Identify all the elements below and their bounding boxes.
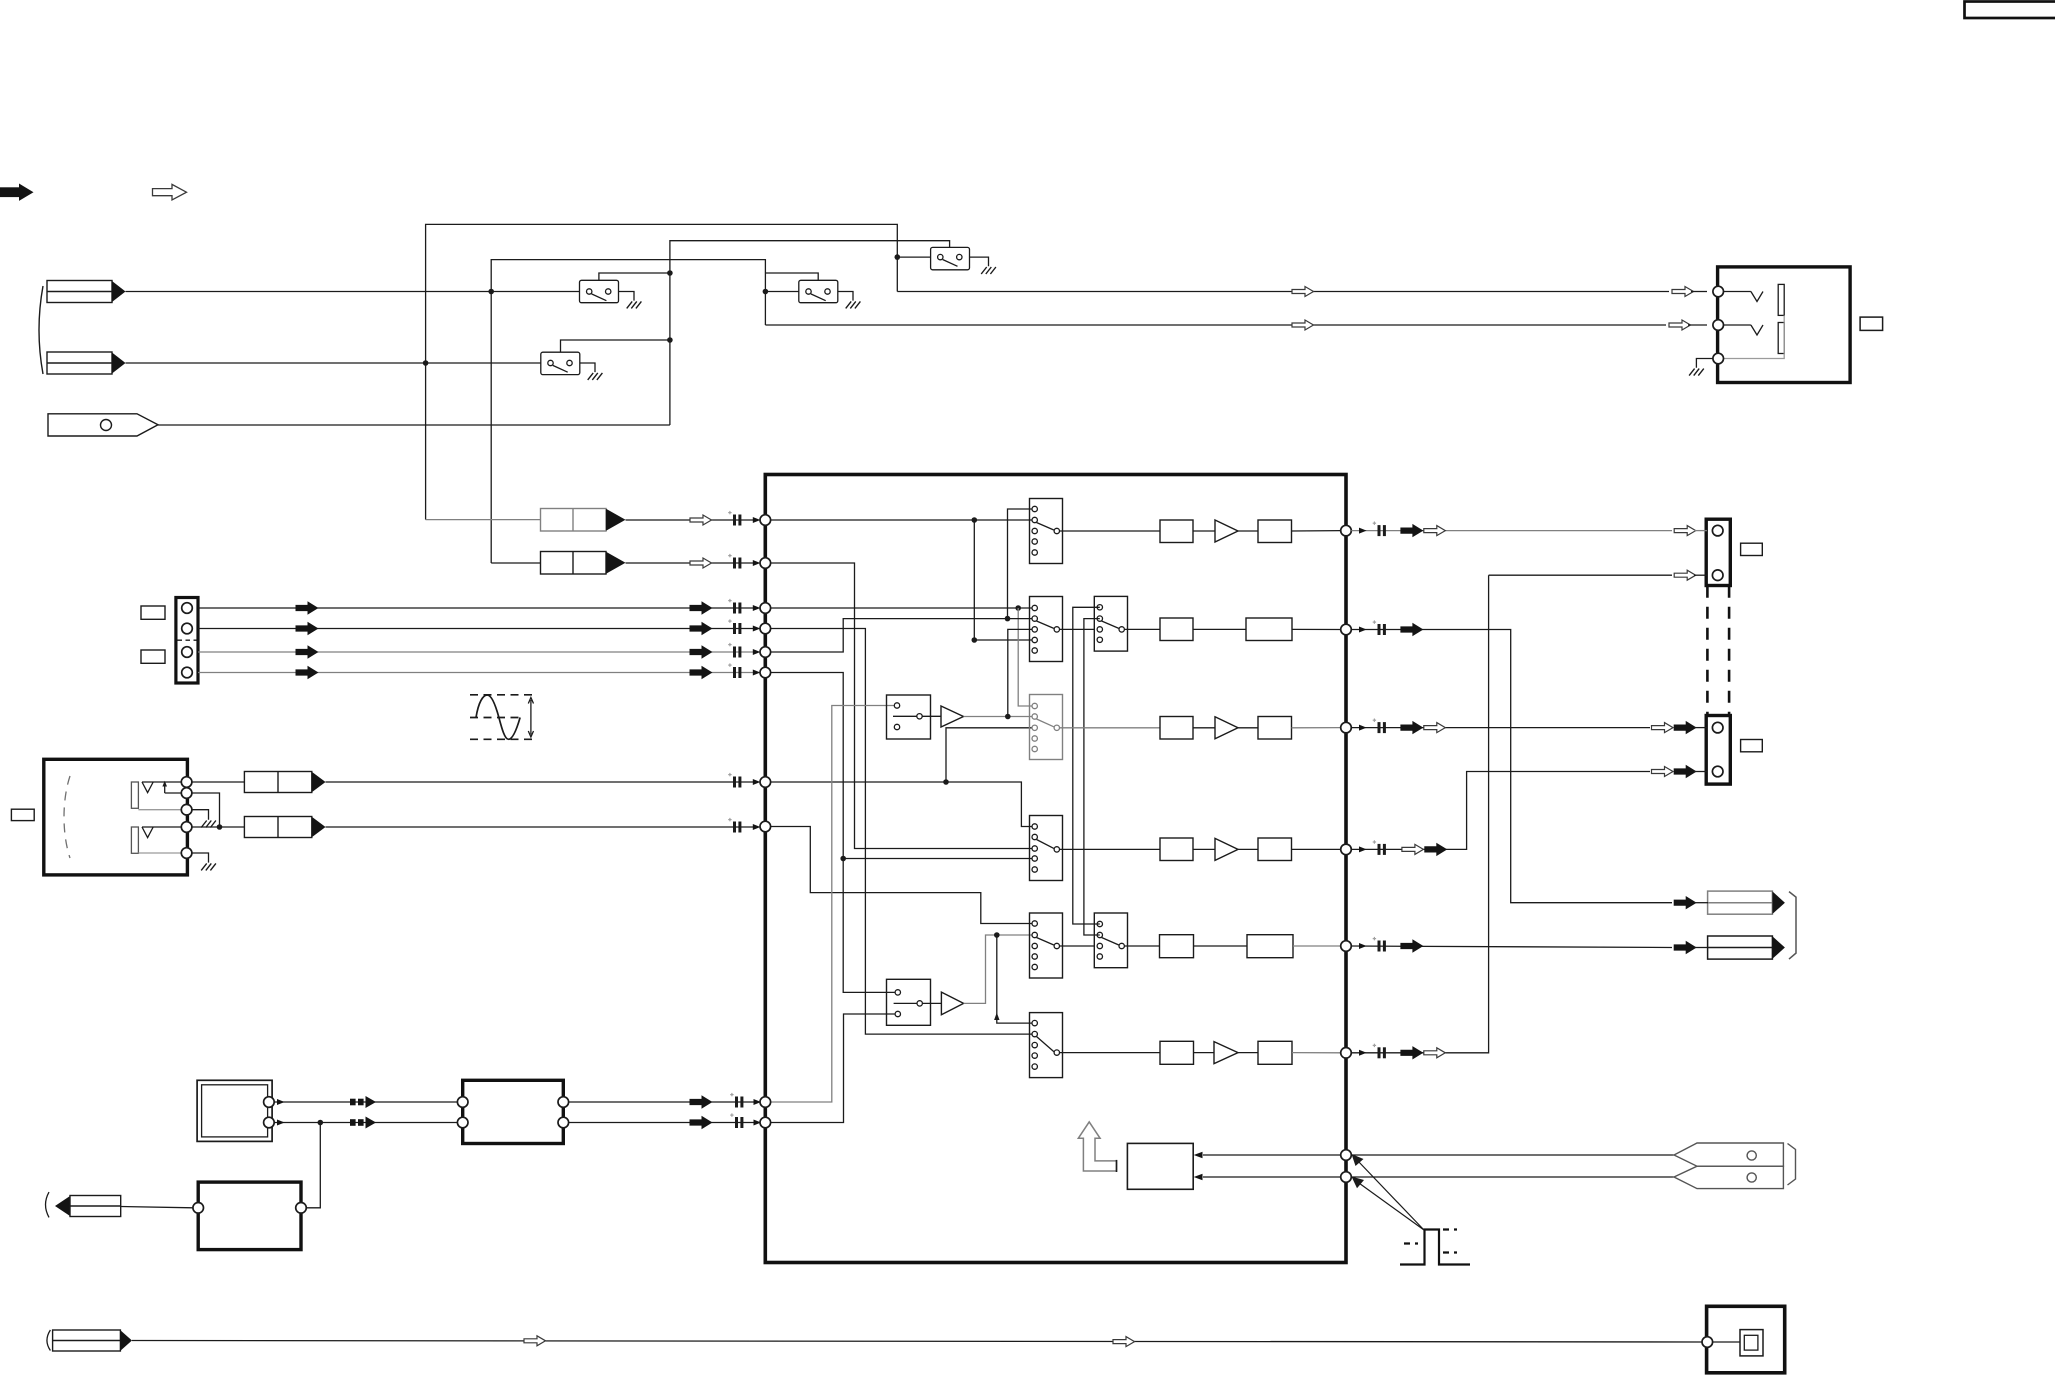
wire row4 [1193, 848, 1215, 850]
terminal U2-1 [264, 1097, 275, 1108]
pulse pointer line 1 [1358, 1161, 1425, 1231]
capacitor row6 [1373, 1044, 1386, 1059]
wire row1 [1193, 530, 1215, 532]
jack wire t2 [165, 792, 182, 794]
jack upper tip contact [142, 782, 181, 793]
wire row6 mux6 out [1060, 1052, 1161, 1054]
node latch1 out [1005, 714, 1011, 720]
latch1 block [887, 695, 931, 739]
mux SW4 [1030, 816, 1063, 881]
terminal JK1-2 [1713, 320, 1724, 331]
wire U2-2 to U3 [274, 1122, 463, 1124]
wire cableC to pin7 [326, 781, 759, 783]
label CN4 [1741, 740, 1763, 752]
terminal CN3-1 [1712, 525, 1723, 536]
wire row6 to pin [1292, 1052, 1341, 1054]
amp row4 [1215, 838, 1238, 860]
jack wire sleeve2 [138, 852, 181, 854]
open arrow row1 [1424, 526, 1446, 536]
wire P7 row [765, 782, 1032, 827]
sine level symbol [470, 695, 537, 740]
wire latch net to mux2.in3 [1008, 629, 1032, 716]
IC right pin 2 [1341, 624, 1352, 635]
black arrow rca1 [1674, 897, 1696, 909]
IC left pin 4 [760, 623, 771, 634]
mux SW1 [1030, 499, 1063, 564]
terminal power [1702, 1337, 1713, 1348]
switch S4 [799, 280, 853, 302]
wire row4 mux4 out [1060, 848, 1161, 850]
IC left pin 10 [760, 1117, 771, 1128]
arrowhead latch2 net [994, 1013, 999, 1021]
cable C (to IC pin7) [244, 772, 311, 793]
block row1 b [1258, 520, 1292, 543]
black arrow row 672 [690, 667, 712, 679]
wire control bus vertical-670 [670, 241, 950, 425]
mux SW5 [1030, 913, 1063, 978]
jack link t2 to row827 [192, 793, 220, 827]
wire row3 out [1351, 727, 1650, 729]
node control S3 [667, 337, 673, 343]
cable D (to IC pin8) [244, 817, 311, 838]
arrowhead row 782 [753, 779, 761, 785]
wire P9 to latch1.in1 [765, 706, 894, 1103]
IC left pin 7 [760, 777, 771, 788]
wire to switch S1 [897, 256, 940, 258]
open arrow on jack row1 end [1672, 287, 1694, 297]
wire row5 to pin [1293, 945, 1341, 947]
tuner front end U3 [463, 1080, 564, 1143]
switch S2 [580, 280, 635, 302]
wire JK2-4 to cable D [192, 826, 244, 828]
switch S1 [931, 247, 989, 269]
wire cable2 to switch S3 [126, 362, 551, 364]
capacitor row 652 [728, 643, 741, 658]
capacitor row 827 [728, 818, 741, 833]
terminal CN3-2 [1712, 570, 1723, 581]
wire P6 branch to mux4.in4 [843, 858, 1032, 860]
wire CN2-3 to IC pin5 [198, 651, 758, 653]
terminal U4-2 [296, 1203, 307, 1214]
node control S2 [667, 270, 673, 276]
wire row4 out [1351, 772, 1650, 850]
contact bar 2 [1778, 323, 1784, 354]
jack sleeve dashed arc [64, 776, 70, 858]
label CN2-a [141, 606, 165, 619]
page corner label box [1965, 2, 2055, 19]
terminal CN2-2 [182, 623, 193, 634]
arrowhead row4 [1359, 846, 1367, 852]
mux SW3 (gray) [1030, 695, 1063, 760]
connector CN3 (line out 1) [1706, 519, 1730, 585]
open arrow row1 end [1674, 526, 1696, 536]
IC left pin 8 [760, 821, 771, 832]
node latch2 net [994, 932, 1000, 938]
wire row1 [1238, 530, 1258, 532]
double arrow row1 [350, 1096, 376, 1108]
arrowhead row 628 [753, 626, 761, 632]
open arrow on jack row2 end [1669, 320, 1691, 330]
arrowhead into U5 row2 [1194, 1174, 1203, 1180]
system control arrow symbol [1078, 1122, 1116, 1171]
ground S1 [981, 267, 996, 274]
divider CN2 [178, 639, 197, 641]
terminal JK2-5 [181, 848, 192, 859]
wire latch net to mux1.in1 [1008, 509, 1033, 619]
wire row1 to pin [1292, 530, 1341, 532]
jack ground 2 [192, 853, 209, 863]
cable A (to IC pin 1) [541, 509, 607, 532]
node jack link [217, 824, 223, 830]
arrowhead into U5 row1 [1194, 1152, 1203, 1158]
legend open arrow [153, 184, 187, 200]
wire remote row2 [1203, 1176, 1341, 1178]
label CN3 [1741, 543, 1763, 555]
open arrow row 563 [690, 558, 712, 568]
jack upper contact bar [131, 782, 138, 808]
terminal JK2-2 [181, 788, 192, 799]
wire row2 out [1351, 630, 1672, 903]
terminal JK2-1 [181, 777, 192, 788]
arrowhead row 1102 [754, 1099, 762, 1105]
contact bar 1 [1778, 284, 1784, 315]
RCA cable A [1708, 891, 1773, 914]
ground S4 [846, 301, 861, 308]
arrowhead row 672 [753, 670, 761, 676]
wire row2 mux2b out [1124, 628, 1160, 630]
node switch S1 feed [895, 254, 901, 260]
pulse pointer line 2 [1358, 1182, 1425, 1230]
wire P6 down [765, 673, 894, 993]
connector CN2 (4pin) [176, 598, 198, 684]
jack wire sleeve1 [138, 809, 181, 811]
terminal CN2-3 [182, 647, 193, 658]
remote receiver block U5 [1127, 1143, 1193, 1189]
black arrow row 652 mid [296, 646, 318, 658]
black arrow row 628 [690, 623, 712, 635]
wire cableA to pin [626, 519, 759, 521]
node cable1/vertical-491 [488, 289, 494, 295]
arrowhead row6 [1359, 1050, 1367, 1056]
capacitor row 563 [728, 554, 741, 569]
wire row3 [1193, 727, 1215, 729]
wire latch2 net to mux6.in1 [997, 935, 1032, 1023]
terminal U3-2 [457, 1117, 468, 1128]
black arrow row 652 [690, 646, 712, 658]
node P3 branch [1015, 605, 1021, 611]
ground JK1 [1689, 369, 1704, 376]
block row4 a [1160, 838, 1193, 861]
amp row3 [1215, 717, 1238, 739]
legend black arrow [0, 184, 34, 201]
wire row6 out [1351, 575, 1488, 1053]
black arrow rca2 [1674, 942, 1696, 954]
wire row4 [1238, 848, 1258, 850]
terminal JK2-4 [181, 822, 192, 833]
black arrow row5 [1401, 940, 1423, 952]
wire to switch S4 [765, 291, 808, 293]
wire row5 mux5b out [1124, 945, 1159, 947]
open arrow row3 end [1652, 723, 1674, 733]
wire P5 to mux2.in2 [765, 619, 1032, 652]
capacitor row 628 [728, 619, 741, 634]
open arrow on jack row1 mid [1292, 287, 1314, 297]
wire CN2-1 to IC pin3 [198, 607, 758, 609]
block row5 b [1247, 935, 1293, 958]
wire row1 out [1351, 530, 1672, 532]
bottom wire to power box [132, 1341, 1702, 1343]
terminal CN4-2 [1712, 766, 1723, 777]
wire remote row1 [1203, 1154, 1341, 1156]
black arrow row 608 mid [296, 602, 318, 614]
terminal CN2-4 [182, 667, 193, 678]
buffer amp A1 [941, 706, 964, 727]
black arrow row2 [1401, 624, 1423, 636]
wire cable1 to switch S2 [126, 291, 590, 293]
wire from bus to cable A [426, 519, 541, 521]
cable plug J1 (line in 1) [47, 281, 112, 303]
double arrow row2 [350, 1117, 376, 1129]
arrowhead row 563 [753, 560, 761, 566]
open arrow row4 [1402, 844, 1424, 854]
wire P1 row [765, 519, 1032, 521]
capacitor row3 [1373, 719, 1386, 734]
amp row1 [1215, 520, 1238, 542]
mux SW5b [1094, 913, 1127, 968]
wire P2 to mux4.in3 [765, 563, 1032, 849]
terminal U3-3 [558, 1097, 569, 1108]
capacitor row 1102 [730, 1093, 743, 1108]
arrowhead row5 [1359, 943, 1367, 949]
amp row6 [1214, 1042, 1238, 1064]
IC left pin 1 [760, 515, 771, 526]
open arrow conn1-2 [1674, 570, 1696, 580]
capacitor row2 [1373, 620, 1386, 635]
power supply box U4 [198, 1182, 301, 1250]
wire P4 to mux6.in2 [765, 629, 1032, 1035]
IC1 main block [765, 475, 1346, 1263]
jack lower contact bar [131, 827, 138, 853]
block row6 a [1160, 1041, 1194, 1064]
mux SW6 [1030, 1013, 1063, 1078]
open arrow row6 [1424, 1048, 1446, 1058]
capacitor row4 [1373, 840, 1386, 855]
IC left pin 5 [760, 647, 771, 658]
power connector box [1707, 1306, 1785, 1373]
wire cableD to pin8 [326, 826, 759, 828]
black arrow row3 end [1674, 722, 1696, 734]
antenna/display double box U2 [197, 1080, 272, 1141]
pulse waveform symbol [1400, 1230, 1470, 1265]
dashed connector continuation [1706, 586, 1709, 715]
wire row5 [1194, 945, 1248, 947]
black arrow row6 [1401, 1047, 1423, 1059]
black arrow row 1102 [690, 1096, 712, 1108]
wire U3 to IC pin10 [569, 1122, 758, 1124]
wire control to S3 [561, 340, 670, 352]
wire row6 [1194, 1052, 1215, 1054]
ground S2 [627, 301, 642, 308]
connector P3 (control plug) [48, 414, 158, 436]
wire U4 to row [306, 1123, 320, 1208]
jack ground wire [1696, 359, 1713, 368]
wire mute line to headphone jack row2 [765, 324, 1666, 326]
RCA cable B [1708, 936, 1773, 959]
IC left pin 6 [760, 667, 771, 678]
black arrow row1 [1401, 525, 1423, 537]
arrowhead u2 row1 [277, 1099, 285, 1105]
capacitor row 520 [728, 511, 741, 526]
jack ground 1 [192, 810, 209, 820]
black arrow row3 [1401, 722, 1423, 734]
cable plug J2 (line in 2) [47, 352, 112, 374]
wire control to S2 [599, 273, 670, 280]
wire stubs at connectors [1694, 902, 1708, 904]
ground S3 [588, 373, 603, 380]
wire P8 to mux5.in1 [765, 827, 1032, 924]
block row2 a [1160, 618, 1193, 641]
node cable2/vertical-425 [423, 360, 429, 366]
black arrow row 1122 [690, 1117, 712, 1129]
open arrow row 520 [690, 515, 712, 525]
latch2 block [887, 979, 931, 1025]
black arrow row4 [1425, 844, 1447, 856]
black arrow row 672 mid [296, 667, 318, 679]
capacitor row1 [1373, 522, 1386, 537]
fork connector prong 2 [1674, 1166, 1783, 1188]
IC right pin 6 [1341, 1048, 1352, 1059]
block row6 b [1258, 1041, 1292, 1064]
wire row5 out [1351, 946, 1672, 948]
arrowhead row3 [1359, 725, 1367, 731]
arrowhead u2 row2 [277, 1120, 285, 1126]
capacitor row 782 [728, 773, 741, 788]
wire JK2-1 to cable C [192, 781, 244, 783]
IC left pin 2 [760, 558, 771, 569]
IC right pin 3 [1341, 722, 1352, 733]
wire conn1 pin2 row [1489, 574, 1672, 576]
wire top bus y224 [426, 224, 898, 519]
terminal U3-4 [558, 1117, 569, 1128]
wire P1 branch to mux2.in4 [974, 520, 1032, 640]
wire control to S4 [765, 273, 818, 280]
wire row2 mux2 out to mux2b [1060, 628, 1095, 630]
wire row6 [1238, 1052, 1258, 1054]
IC right pin 8 [1341, 1172, 1352, 1183]
open arrow row3 [1424, 723, 1446, 733]
arrowhead row 1122 [754, 1120, 762, 1126]
wire bus y259 [491, 260, 765, 563]
arrowhead row 608 [753, 605, 761, 611]
block row4 b [1258, 838, 1292, 861]
wire row3 to pin [1292, 727, 1341, 729]
block row3 b [1258, 717, 1292, 740]
wire mute line to headphone jack row1 [897, 291, 1669, 293]
wire P3 branch to mux3.in1 [1018, 608, 1032, 706]
label JK2 [11, 809, 34, 820]
cable B (to IC pin 2) [541, 552, 607, 575]
node U4 link [318, 1120, 324, 1126]
label CN2-b [141, 650, 165, 663]
jack lower tip contact [142, 827, 181, 838]
IC right pin 7 [1341, 1150, 1352, 1161]
wire P3 row [765, 607, 1032, 609]
mux SW2b [1094, 596, 1127, 651]
bracket left of bottom cable [47, 1330, 50, 1351]
wire inside power box [1713, 1341, 1740, 1343]
bracket left of input cables [39, 286, 43, 374]
terminal JK1-1 [1713, 286, 1724, 297]
capacitor row5 [1373, 937, 1386, 952]
terminal U2-2 [264, 1117, 275, 1128]
block row5 a [1160, 935, 1194, 958]
wire row5 mux5 out to mux5b [1060, 945, 1095, 947]
wire U3 to IC pin9 [569, 1101, 758, 1103]
open arrow bottom 2 [1113, 1337, 1135, 1347]
node latch net on row618 [1005, 616, 1011, 622]
IC left pin 3 [760, 603, 771, 614]
open arrow row4 end [1652, 767, 1674, 777]
connector JK1 (output jack top right) [1718, 267, 1851, 383]
capacitor row 608 [728, 599, 741, 614]
wire control plug to vertical-670 [158, 424, 670, 426]
wire CN2-2 to IC pin4 [198, 628, 758, 630]
arrowhead row1 [1359, 528, 1367, 534]
terminal JK1-3 [1713, 353, 1724, 364]
open arrow on jack row2 mid [1292, 320, 1314, 330]
arrowhead row 652 [753, 649, 761, 655]
wire latch2 out to mux5.in2 [922, 1002, 941, 1004]
headphone jack JK2 [44, 759, 188, 875]
wire row3 mux3 out [1060, 727, 1161, 729]
fork connector prong 1 [1674, 1143, 1783, 1166]
power socket square [1740, 1330, 1763, 1356]
buffer amp A2 [941, 992, 963, 1015]
bracket left of power cable [46, 1192, 50, 1217]
node switch S4 feed [763, 289, 769, 295]
black arrow row 608 [690, 602, 712, 614]
switch S3 [541, 352, 595, 374]
terminal CN2-1 [182, 603, 193, 614]
jack sleeve line [1724, 315, 1785, 358]
arrowhead row 520 [753, 517, 761, 523]
wire row2 [1193, 628, 1246, 630]
wire CN2-4 to IC pin6 [198, 672, 758, 674]
wire row4 to pin [1292, 848, 1341, 850]
wire U2-1 to U3 [274, 1101, 463, 1103]
wire remote to fork [1351, 1154, 1674, 1156]
wire row2 to pin [1292, 628, 1341, 630]
wire row3 [1238, 727, 1258, 729]
label JK1 [1860, 317, 1883, 330]
bracket right of fork [1788, 1144, 1796, 1186]
wire mux2b feed vertical B [1084, 619, 1100, 935]
arrowhead row 827 [753, 824, 761, 830]
terminal U4-1 [193, 1203, 204, 1214]
wire mux2b feed vertical A [1073, 607, 1100, 924]
black arrow row 628 mid [296, 623, 318, 635]
connector CN4 (line out 2) [1706, 716, 1730, 785]
terminal JK2-3 [181, 804, 192, 815]
IC right pin 1 [1341, 525, 1352, 536]
bracket right of RCA [1789, 892, 1796, 960]
block row2 b [1246, 618, 1292, 641]
wire from bus to cable B [491, 562, 540, 564]
power cable J5 (left pointing) [55, 1196, 70, 1216]
mux SW2 [1030, 597, 1063, 662]
capacitor row 1122 [730, 1113, 743, 1128]
IC left pin 9 [760, 1097, 771, 1108]
